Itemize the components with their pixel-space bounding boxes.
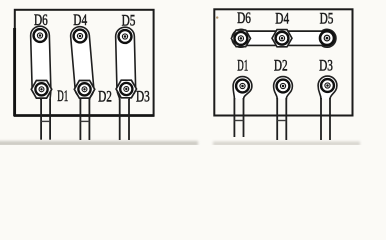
scan smudge bottom-right: [213, 142, 360, 147]
terminal stud D5 (right box): [320, 31, 334, 45]
terminal stud D4 (left box, washer+nut): [74, 30, 87, 43]
wire below D1: [40, 99, 42, 140]
right terminal box outline: [214, 9, 352, 115]
svg-text:D6: D6: [237, 10, 251, 27]
svg-text:D3: D3: [319, 58, 333, 75]
terminal nut D2 (left box): [74, 80, 94, 98]
wire below D2: [276, 98, 278, 140]
svg-text:D3: D3: [136, 89, 150, 106]
terminal stud D5 (left box, washer+nut): [119, 30, 132, 43]
svg-text:D6: D6: [34, 12, 48, 29]
cable lug D3: [318, 76, 337, 99]
svg-text:D2: D2: [98, 88, 112, 105]
link strap D5-D3: [116, 27, 136, 100]
wire below D3: [320, 98, 322, 140]
paper background: [0, 0, 386, 145]
svg-text:D2: D2: [274, 58, 288, 75]
scan speck: [216, 16, 218, 18]
link strap D4-D2: [71, 27, 94, 100]
terminal nut D1 (left box): [31, 80, 51, 98]
svg-text:D1: D1: [237, 58, 248, 75]
wire below D1: [233, 98, 235, 137]
terminal stud D6 (right box): [231, 30, 250, 47]
shorting link bar D6-D4-D5: [232, 29, 336, 47]
terminal stud D4 (right box): [272, 30, 292, 47]
wire below D3: [119, 99, 121, 140]
svg-text:D4: D4: [275, 10, 289, 27]
scan smudge bottom-left: [0, 141, 198, 146]
svg-text:D5: D5: [320, 10, 334, 27]
svg-text:D4: D4: [73, 12, 87, 29]
svg-text:D5: D5: [122, 12, 136, 29]
terminal stud D1 (right box): [236, 80, 249, 93]
link strap D6-D1: [31, 26, 51, 100]
left box heavy left edge: [13, 28, 16, 116]
cable lug D2: [274, 77, 293, 99]
left terminal box outline: [15, 10, 154, 115]
left box heavy bottom edge: [14, 114, 155, 117]
cable lug D1: [233, 77, 252, 99]
wire below D2: [79, 99, 81, 140]
terminal stud D6 (left box, washer+nut): [34, 29, 47, 42]
terminal stud D2 (right box): [277, 80, 290, 93]
terminal stud D3 (right box): [321, 79, 334, 92]
terminal nut D3 (left box): [116, 80, 136, 98]
svg-text:D1: D1: [57, 88, 68, 105]
